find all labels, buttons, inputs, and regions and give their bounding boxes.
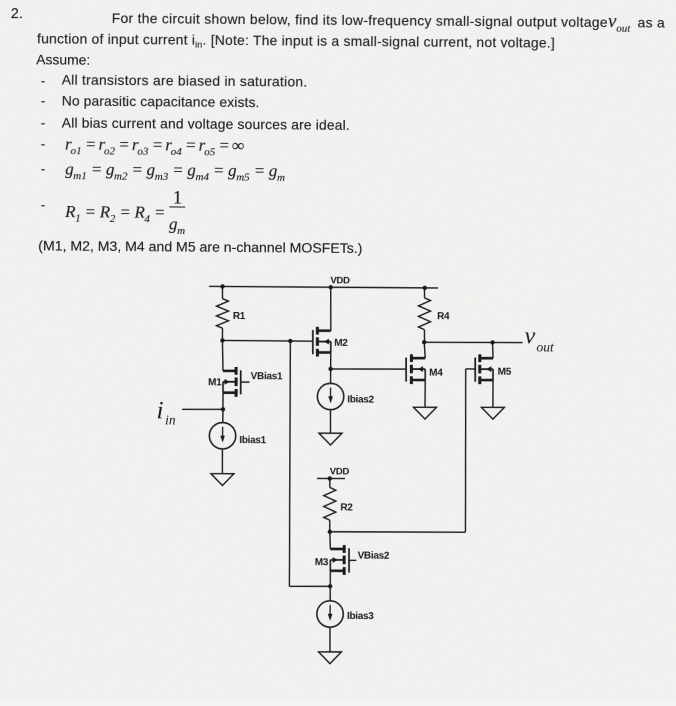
problem text line 1	[112, 7, 665, 35]
node: M3 source / Ibias3 junction	[328, 584, 332, 588]
problem number	[11, 6, 23, 22]
svg-text:R4: R4	[437, 311, 450, 322]
assume heading	[36, 51, 90, 67]
node: M5 drain junction on output wire	[490, 340, 494, 344]
wire feedback horizontal to R2/M3 node	[330, 531, 466, 533]
ground (below Ibias2)	[319, 433, 342, 445]
transistor M4	[405, 358, 407, 382]
svg-text:VDD: VDD	[330, 466, 350, 477]
closing remark	[38, 238, 362, 257]
wire M3 drain up to R2 node	[329, 532, 332, 549]
node: VDD/R4 junction	[423, 286, 427, 290]
node: M2 gate wire / M3 branch junction	[288, 339, 292, 343]
wire M5 gate feedback vertical	[464, 369, 466, 532]
svg-text:R2: R2	[340, 502, 353, 513]
node: M2 source / Ibias2 / M4 gate	[328, 367, 332, 371]
ground (below M5)	[481, 407, 504, 419]
svg-text:M2: M2	[334, 338, 348, 349]
svg-text:out: out	[536, 340, 555, 355]
transistor M2	[312, 330, 314, 354]
problem text line 2	[37, 31, 555, 53]
bullet 5 math g_m	[41, 160, 46, 176]
ground (below Ibias1)	[211, 473, 234, 485]
node: R4 bottom / M4 drain / output wire	[422, 340, 426, 344]
wire Ibias3 to ground	[329, 627, 331, 652]
svg-text:Ibias2: Ibias2	[347, 394, 374, 405]
svg-text:i: i	[156, 398, 163, 425]
resistor R1	[221, 286, 223, 298]
current source Ibias2	[317, 383, 344, 410]
wire horizontal into M3 source node	[289, 585, 330, 588]
wire down from M2 gate node to M3 source (vertical)	[288, 341, 291, 586]
wire M2 source node down to Ibias2	[329, 369, 331, 384]
wire M3 gate stub	[349, 559, 356, 561]
bullet 6 math R	[41, 196, 46, 212]
svg-text:VBias1: VBias1	[251, 371, 283, 382]
wire M5 gate left	[466, 368, 476, 370]
node: VDD/R1 junction	[220, 284, 224, 288]
svg-text:M1: M1	[208, 377, 222, 388]
resistor R4	[423, 288, 425, 298]
wire Ibias1 to ground	[221, 448, 224, 473]
svg-text:Ibias1: Ibias1	[239, 435, 266, 446]
wire input node to Ibias1	[222, 409, 224, 423]
bullet 1	[41, 72, 46, 88]
wire M1 source down to input node	[222, 393, 224, 410]
svg-text:M5: M5	[498, 366, 512, 377]
wire M1 drain up to node A	[222, 340, 223, 370]
wire M4 drain up to output node	[424, 342, 425, 358]
wire M5 source down to ground	[492, 380, 494, 407]
bullet 3	[41, 114, 46, 130]
wire M3 source node to Ibias3	[329, 586, 331, 601]
wire M4 source down to ground	[424, 380, 426, 407]
node: VDD/M2 drain junction	[328, 285, 332, 289]
wire node A to M2 gate	[222, 339, 312, 342]
wire M5 drain up to output wire	[491, 342, 494, 358]
wire M2 drain up to VDD	[329, 287, 332, 330]
svg-text:M3: M3	[315, 557, 329, 568]
node: R2 bottom / M3 drain / feedback wire	[328, 530, 332, 534]
wire M1 gate stub	[241, 381, 250, 383]
ground (below M4)	[413, 407, 436, 419]
bullet 2	[41, 92, 46, 108]
bullet 4 math r_o	[41, 135, 46, 151]
wire i_in input lead	[182, 408, 223, 411]
transistor M3	[348, 548, 350, 572]
svg-text:R1: R1	[233, 311, 246, 322]
svg-text:VDD: VDD	[330, 275, 350, 286]
svg-text:in: in	[165, 412, 176, 427]
ground (below Ibias3)	[318, 652, 341, 664]
svg-text:M4: M4	[429, 368, 443, 379]
wire VDD top rail	[209, 286, 438, 288]
transistor M1	[240, 370, 242, 394]
wire Ibias2 to ground	[329, 409, 331, 433]
node A: R1 bottom / M1 drain / M2 gate	[220, 338, 224, 342]
current source Ibias3	[317, 601, 344, 628]
resistor R2	[329, 478, 331, 487]
wire M2 source down	[330, 352, 332, 368]
transistor M5	[474, 357, 476, 381]
svg-text:VBias2: VBias2	[358, 551, 390, 562]
node: input node (M1 source / Ibias1)	[221, 407, 225, 411]
wire output rail to v_out	[424, 342, 522, 343]
node: lower VDD / R2 junction	[328, 476, 332, 480]
wire M2 source node to M4 gate	[331, 368, 407, 369]
current source Ibias1	[209, 422, 236, 449]
svg-text:v: v	[524, 324, 535, 350]
wire M3 source down	[329, 571, 331, 586]
wire VDD lower rail	[317, 477, 345, 479]
svg-text:Ibias3: Ibias3	[347, 611, 374, 622]
